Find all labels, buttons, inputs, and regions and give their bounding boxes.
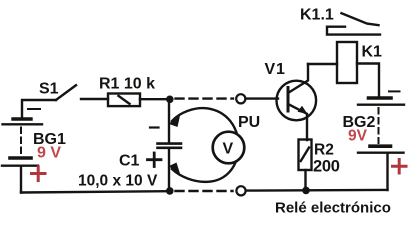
node bottom-left junction dot: [166, 187, 174, 195]
transistor V1: [277, 64, 317, 140]
node open terminal bottom: [236, 186, 245, 195]
switch S1: [22, 85, 108, 117]
plus sign BG1: [32, 167, 46, 181]
wire bottom dashed: [176, 190, 233, 192]
svg-text:C1: C1: [119, 153, 140, 170]
node open terminal top: [236, 94, 245, 103]
svg-text:Relé electrónico: Relé electrónico: [275, 200, 391, 217]
resistor R2: [299, 140, 312, 189]
svg-text:200: 200: [313, 158, 340, 176]
wire bottom rail left: [21, 191, 167, 192]
node R2 junction dot: [302, 187, 310, 195]
relay contact K1.1: [327, 13, 380, 34]
relay coil K1: [308, 42, 379, 96]
svg-text:R1 10 k: R1 10 k: [99, 76, 155, 93]
capacitor C1: [150, 103, 181, 188]
svg-text:9V: 9V: [348, 128, 368, 145]
plus sign BG2: [393, 160, 407, 174]
svg-text:K1: K1: [362, 44, 383, 61]
svg-text:PU: PU: [238, 114, 260, 131]
svg-text:S1: S1: [39, 81, 59, 98]
arrowhead top: [169, 116, 181, 127]
plus sign C1: [148, 153, 162, 167]
wire to base: [246, 97, 279, 99]
svg-text:V: V: [223, 141, 234, 158]
node A junction dot: [166, 96, 174, 104]
voltmeter loop wire: [172, 108, 239, 182]
wire bottom rail right: [246, 189, 388, 192]
battery BG1: [2, 119, 42, 193]
wire dashed base link: [176, 97, 234, 99]
arrowhead bottom: [169, 163, 181, 174]
svg-text:10,0 x 10 V: 10,0 x 10 V: [78, 173, 158, 190]
battery BG2: [358, 91, 404, 190]
voltmeter PU: [213, 132, 245, 164]
svg-text:V1: V1: [265, 61, 286, 78]
svg-text:9 V: 9 V: [37, 145, 61, 162]
svg-text:R2: R2: [314, 142, 334, 159]
resistor R1: [108, 94, 166, 107]
svg-text:K1.1: K1.1: [300, 7, 334, 24]
